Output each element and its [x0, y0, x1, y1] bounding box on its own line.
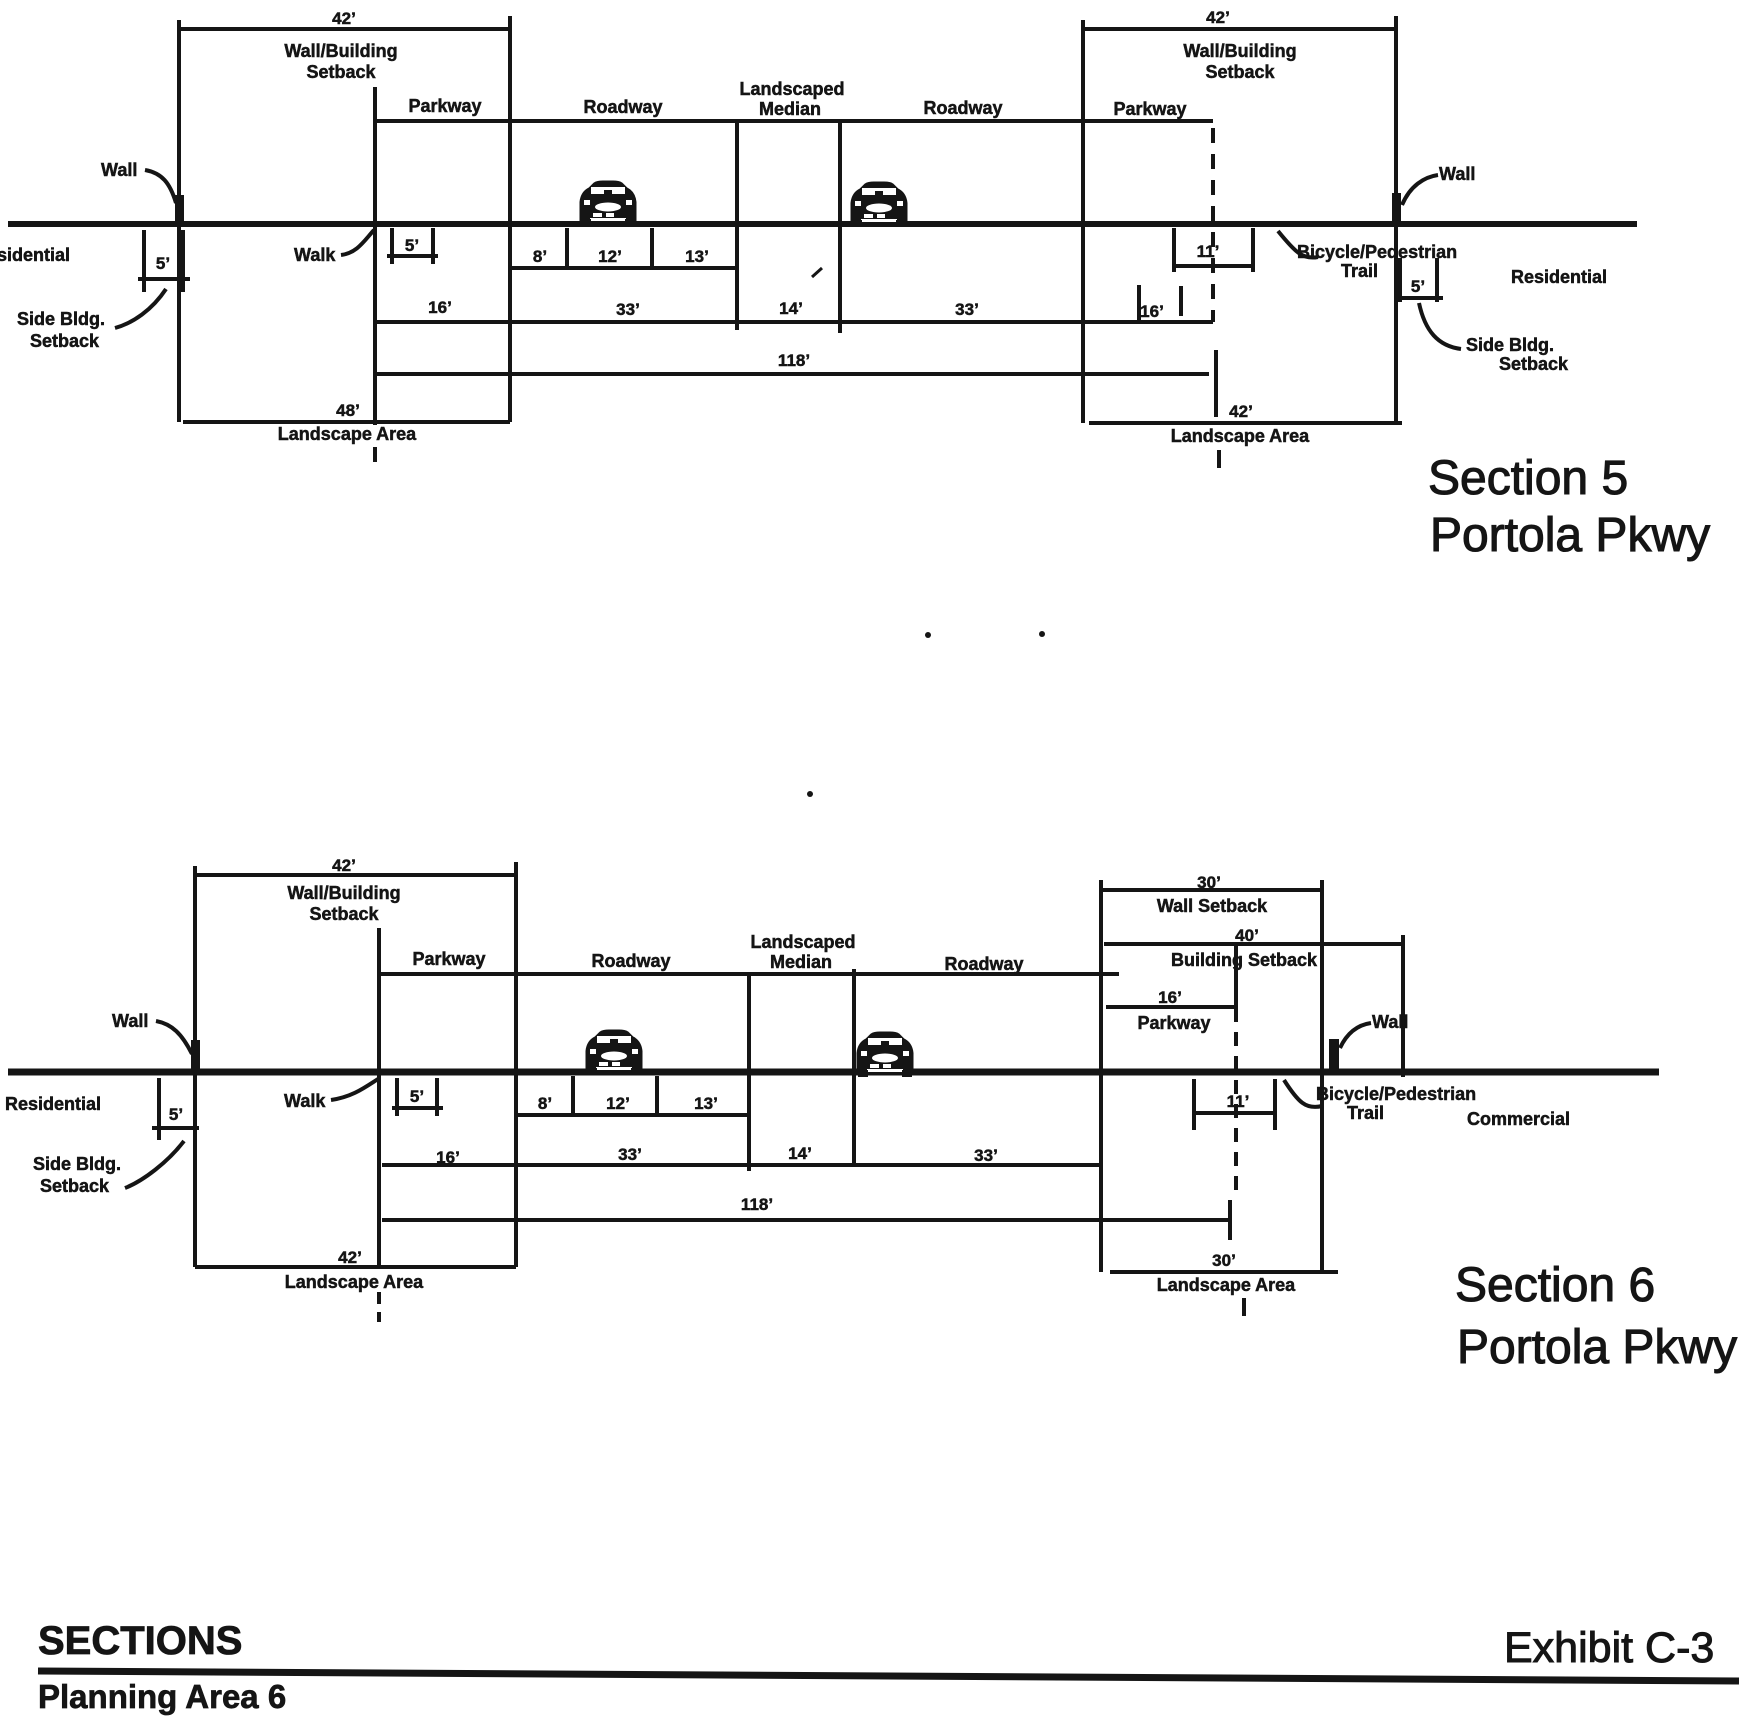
svg-text:5’: 5’	[410, 1087, 424, 1106]
dot artifact 1	[925, 632, 931, 638]
median right vertical s6	[852, 969, 856, 1165]
walk 5ft box s6	[395, 1078, 399, 1116]
landscape area left bottom line	[183, 420, 510, 424]
svg-text:Landscape Area: Landscape Area	[285, 1272, 424, 1292]
car 1 section 6	[586, 1030, 642, 1075]
right 5ft bracket	[1398, 258, 1402, 302]
label 16 right with ticks	[1137, 285, 1141, 320]
ground line section 6	[8, 1069, 1659, 1076]
svg-text:16’: 16’	[1140, 302, 1164, 321]
svg-text:Portola Pkwy: Portola Pkwy	[1457, 1321, 1737, 1374]
svg-text:42’: 42’	[1229, 402, 1253, 421]
svg-text:Setback: Setback	[30, 331, 100, 351]
svg-text:42’: 42’	[1206, 8, 1230, 27]
svg-text:Wall Setback: Wall Setback	[1157, 896, 1268, 916]
building setback dimension line s6	[1104, 942, 1403, 946]
lane divider 1	[565, 228, 569, 268]
svg-text:Landscaped: Landscaped	[739, 79, 844, 99]
svg-text:48’: 48’	[336, 401, 360, 420]
svg-text:Parkway: Parkway	[1137, 1013, 1210, 1033]
svg-text:Planning Area 6: Planning Area 6	[38, 1678, 286, 1715]
svg-text:40’: 40’	[1235, 926, 1259, 945]
SECTION6	[5, 856, 1737, 1374]
svg-text:Median: Median	[759, 99, 821, 119]
svg-text:Wall: Wall	[101, 160, 137, 180]
dot artifact 3	[807, 791, 813, 797]
landscape area right bottom line	[1089, 421, 1402, 425]
wall setback left vertical s6	[1099, 880, 1103, 1272]
svg-text:30’: 30’	[1197, 873, 1221, 892]
leader wall right	[1402, 175, 1438, 205]
leader walk	[341, 230, 374, 255]
svg-text:Setback: Setback	[40, 1176, 110, 1196]
parkway roadway median dimension line	[375, 119, 1213, 123]
svg-text:Wall: Wall	[1439, 164, 1475, 184]
leader wall right s6	[1340, 1023, 1371, 1048]
SECTION5	[0, 8, 1710, 797]
leader side bldg left	[115, 289, 166, 328]
lane divider 1 s6	[571, 1076, 575, 1115]
svg-text:Wall/Building: Wall/Building	[287, 883, 400, 903]
vertical dashed below parkway s6	[1234, 1008, 1238, 1190]
svg-text:Building Setback: Building Setback	[1171, 950, 1318, 970]
leader wall left s6	[156, 1021, 192, 1054]
svg-text:Wall: Wall	[1372, 1012, 1408, 1032]
FOOTER	[38, 1619, 1739, 1715]
svg-text:118’: 118’	[778, 351, 810, 370]
median right vertical	[838, 121, 842, 333]
svg-text:Section 6: Section 6	[1455, 1259, 1655, 1312]
dot artifact 2	[1039, 631, 1045, 637]
wall setback dimension line s6	[1101, 888, 1322, 892]
walk line s6	[377, 928, 381, 1267]
svg-text:Trail: Trail	[1347, 1103, 1384, 1123]
118 right end tick	[1214, 350, 1218, 417]
leader walk s6	[331, 1079, 378, 1100]
11ft box s6	[1192, 1079, 1196, 1130]
scan artifact dash	[812, 268, 822, 277]
svg-text:16’: 16’	[436, 1148, 460, 1167]
svg-text:Landscape Area: Landscape Area	[1171, 426, 1310, 446]
wall mark left s6	[191, 1040, 200, 1072]
svg-text:Parkway: Parkway	[1113, 99, 1186, 119]
left setback box right edge	[508, 16, 512, 422]
svg-text:SECTIONS: SECTIONS	[38, 1619, 242, 1663]
tick below landscape right s6	[1242, 1298, 1246, 1316]
parkway roadway median dimension line s6	[379, 972, 1119, 976]
median left vertical	[735, 121, 739, 330]
svg-text:42’: 42’	[332, 9, 356, 28]
svg-text:Walk: Walk	[284, 1091, 326, 1111]
walk line	[373, 87, 377, 425]
svg-text:Landscape Area: Landscape Area	[1157, 1275, 1296, 1295]
svg-text:Roadway: Roadway	[583, 97, 662, 117]
svg-text:Wall/Building: Wall/Building	[284, 41, 397, 61]
left setback box left edge	[177, 20, 181, 422]
top dimension line 42 left	[179, 27, 510, 31]
svg-text:11’: 11’	[1197, 242, 1220, 261]
svg-text:33’: 33’	[618, 1145, 642, 1164]
building setback right vertical s6	[1401, 935, 1405, 1077]
svg-text:Exhibit C-3: Exhibit C-3	[1504, 1624, 1714, 1672]
svg-text:8’: 8’	[533, 247, 547, 266]
svg-text:Roadway: Roadway	[591, 951, 670, 971]
118 right end tick s6	[1228, 1200, 1232, 1240]
svg-text:5’: 5’	[1411, 277, 1425, 296]
svg-text:33’: 33’	[616, 300, 640, 319]
svg-text:Bicycle/Pedestrian: Bicycle/Pedestrian	[1297, 242, 1457, 262]
wall mark right	[1392, 193, 1401, 226]
right setback box right edge	[1394, 16, 1398, 423]
svg-text:5’: 5’	[405, 236, 419, 255]
svg-text:Residential: Residential	[0, 245, 70, 265]
svg-text:Roadway: Roadway	[944, 954, 1023, 974]
car 2 section 5	[851, 182, 907, 227]
landscape area bottom line left s6	[195, 1265, 516, 1269]
leader side bldg right	[1419, 303, 1461, 349]
svg-text:Portola Pkwy: Portola Pkwy	[1430, 509, 1710, 562]
svg-text:Setback: Setback	[1499, 354, 1569, 374]
leader bicycle trail	[1278, 231, 1318, 258]
wall mark left	[175, 195, 184, 226]
svg-text:Side Bldg.: Side Bldg.	[1466, 335, 1554, 355]
svg-text:Section 5: Section 5	[1428, 452, 1628, 505]
svg-text:33’: 33’	[955, 300, 979, 319]
svg-text:14’: 14’	[788, 1144, 812, 1163]
footer title line	[38, 1671, 1739, 1681]
svg-text:16’: 16’	[1158, 988, 1182, 1007]
svg-text:Side Bldg.: Side Bldg.	[17, 309, 105, 329]
svg-text:42’: 42’	[332, 856, 356, 875]
median left vertical s6	[747, 974, 751, 1171]
car 1 section 5	[580, 181, 636, 226]
svg-text:Setback: Setback	[1205, 62, 1275, 82]
leader wall left	[145, 170, 176, 203]
left setback box right edge s6	[514, 862, 518, 1267]
svg-text:Setback: Setback	[306, 62, 376, 82]
svg-text:Commercial: Commercial	[1467, 1109, 1570, 1129]
lane boxes bottom line	[510, 266, 737, 270]
lane divider 2	[650, 228, 654, 268]
svg-text:Parkway: Parkway	[412, 949, 485, 969]
svg-text:12’: 12’	[598, 247, 622, 266]
svg-text:Landscaped: Landscaped	[750, 932, 855, 952]
svg-text:5’: 5’	[156, 254, 170, 273]
svg-text:11’: 11’	[1227, 1092, 1250, 1111]
svg-text:8’: 8’	[538, 1094, 552, 1113]
svg-text:Setback: Setback	[309, 904, 379, 924]
lane divider 2 s6	[655, 1076, 659, 1115]
svg-text:12’: 12’	[606, 1094, 630, 1113]
lane boxes bottom line s6	[516, 1113, 749, 1117]
svg-text:30’: 30’	[1212, 1251, 1236, 1270]
svg-text:13’: 13’	[694, 1094, 718, 1113]
landscape area bottom line right s6	[1110, 1270, 1338, 1274]
svg-text:Walk: Walk	[294, 245, 336, 265]
11ft box	[1172, 228, 1176, 272]
118 dimension line	[376, 372, 1209, 376]
leader side bldg left s6	[125, 1141, 184, 1188]
svg-text:Wall: Wall	[112, 1011, 148, 1031]
svg-text:16’: 16’	[428, 298, 452, 317]
walk 5ft box	[390, 228, 394, 264]
dimension line 16-33-14-33 s6	[382, 1163, 1100, 1167]
car 2 section 6	[857, 1032, 913, 1077]
svg-text:5’: 5’	[169, 1105, 183, 1124]
svg-text:Landscape Area: Landscape Area	[278, 424, 417, 444]
left 5ft bracket	[142, 230, 146, 292]
walk line dashes below s6	[377, 1292, 381, 1322]
right setback box left edge	[1081, 20, 1085, 423]
svg-text:Side Bldg.: Side Bldg.	[33, 1154, 121, 1174]
ground line section 5	[8, 221, 1637, 227]
svg-text:13’: 13’	[685, 247, 709, 266]
svg-text:14’: 14’	[779, 299, 803, 318]
parkway 16 dimension line s6	[1106, 1005, 1236, 1009]
wall mark right s6	[1329, 1039, 1339, 1073]
left 5ft bracket s6	[157, 1078, 161, 1140]
svg-text:42’: 42’	[338, 1248, 362, 1267]
leader bicycle trail s6	[1284, 1080, 1322, 1107]
svg-text:118’: 118’	[741, 1195, 773, 1214]
dashed vertical right parkway	[1211, 128, 1215, 322]
svg-text:Residential: Residential	[5, 1094, 101, 1114]
svg-text:Roadway: Roadway	[923, 98, 1002, 118]
walk line tick below landscape	[373, 447, 377, 462]
top dimension line 42 right	[1083, 27, 1396, 31]
svg-text:Residential: Residential	[1511, 267, 1607, 287]
top dimension line 42 s6	[195, 873, 516, 877]
svg-text:33’: 33’	[974, 1146, 998, 1165]
dimension line 16-33-14-33-16	[375, 320, 1213, 324]
landscape right tick below	[1217, 450, 1221, 468]
svg-text:Bicycle/Pedestrian: Bicycle/Pedestrian	[1316, 1084, 1476, 1104]
svg-text:Wall/Building: Wall/Building	[1183, 41, 1296, 61]
vertical at building setback solid s6	[1234, 944, 1238, 1008]
svg-text:Parkway: Parkway	[408, 96, 481, 116]
wall setback right vertical s6	[1320, 880, 1324, 1272]
svg-text:Trail: Trail	[1341, 261, 1378, 281]
left setback box left edge s6	[193, 866, 197, 1267]
118 dimension line s6	[382, 1218, 1230, 1222]
svg-text:Median: Median	[770, 952, 832, 972]
